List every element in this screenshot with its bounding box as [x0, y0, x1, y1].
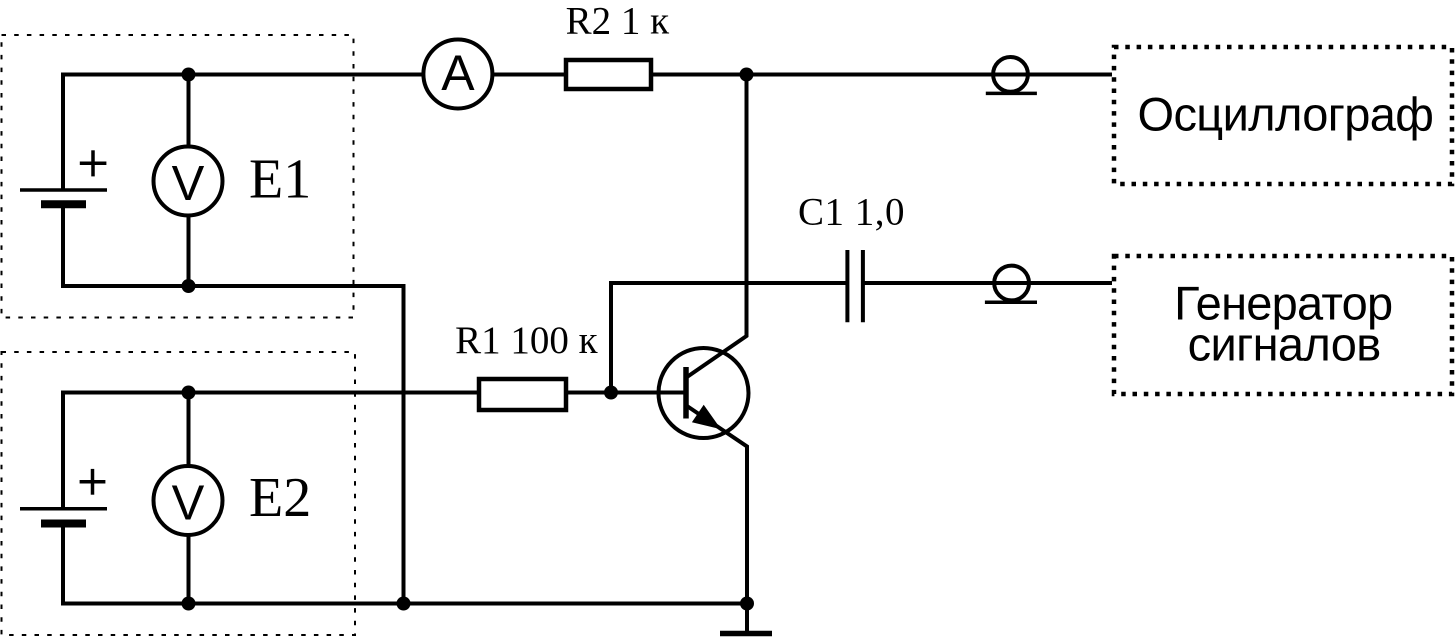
svg-text:C1 1,0: C1 1,0	[798, 191, 905, 234]
svg-text:E2: E2	[249, 467, 311, 529]
svg-text:R1 100 к: R1 100 к	[455, 319, 598, 362]
svg-text:V: V	[172, 157, 205, 211]
svg-text:A: A	[441, 45, 475, 101]
svg-text:R2 1 к: R2 1 к	[566, 0, 670, 43]
svg-text:Осциллограф: Осциллограф	[1138, 87, 1434, 140]
svg-text:E1: E1	[249, 149, 311, 211]
svg-text:сигналов: сигналов	[1188, 318, 1381, 371]
svg-text:V: V	[172, 477, 205, 531]
